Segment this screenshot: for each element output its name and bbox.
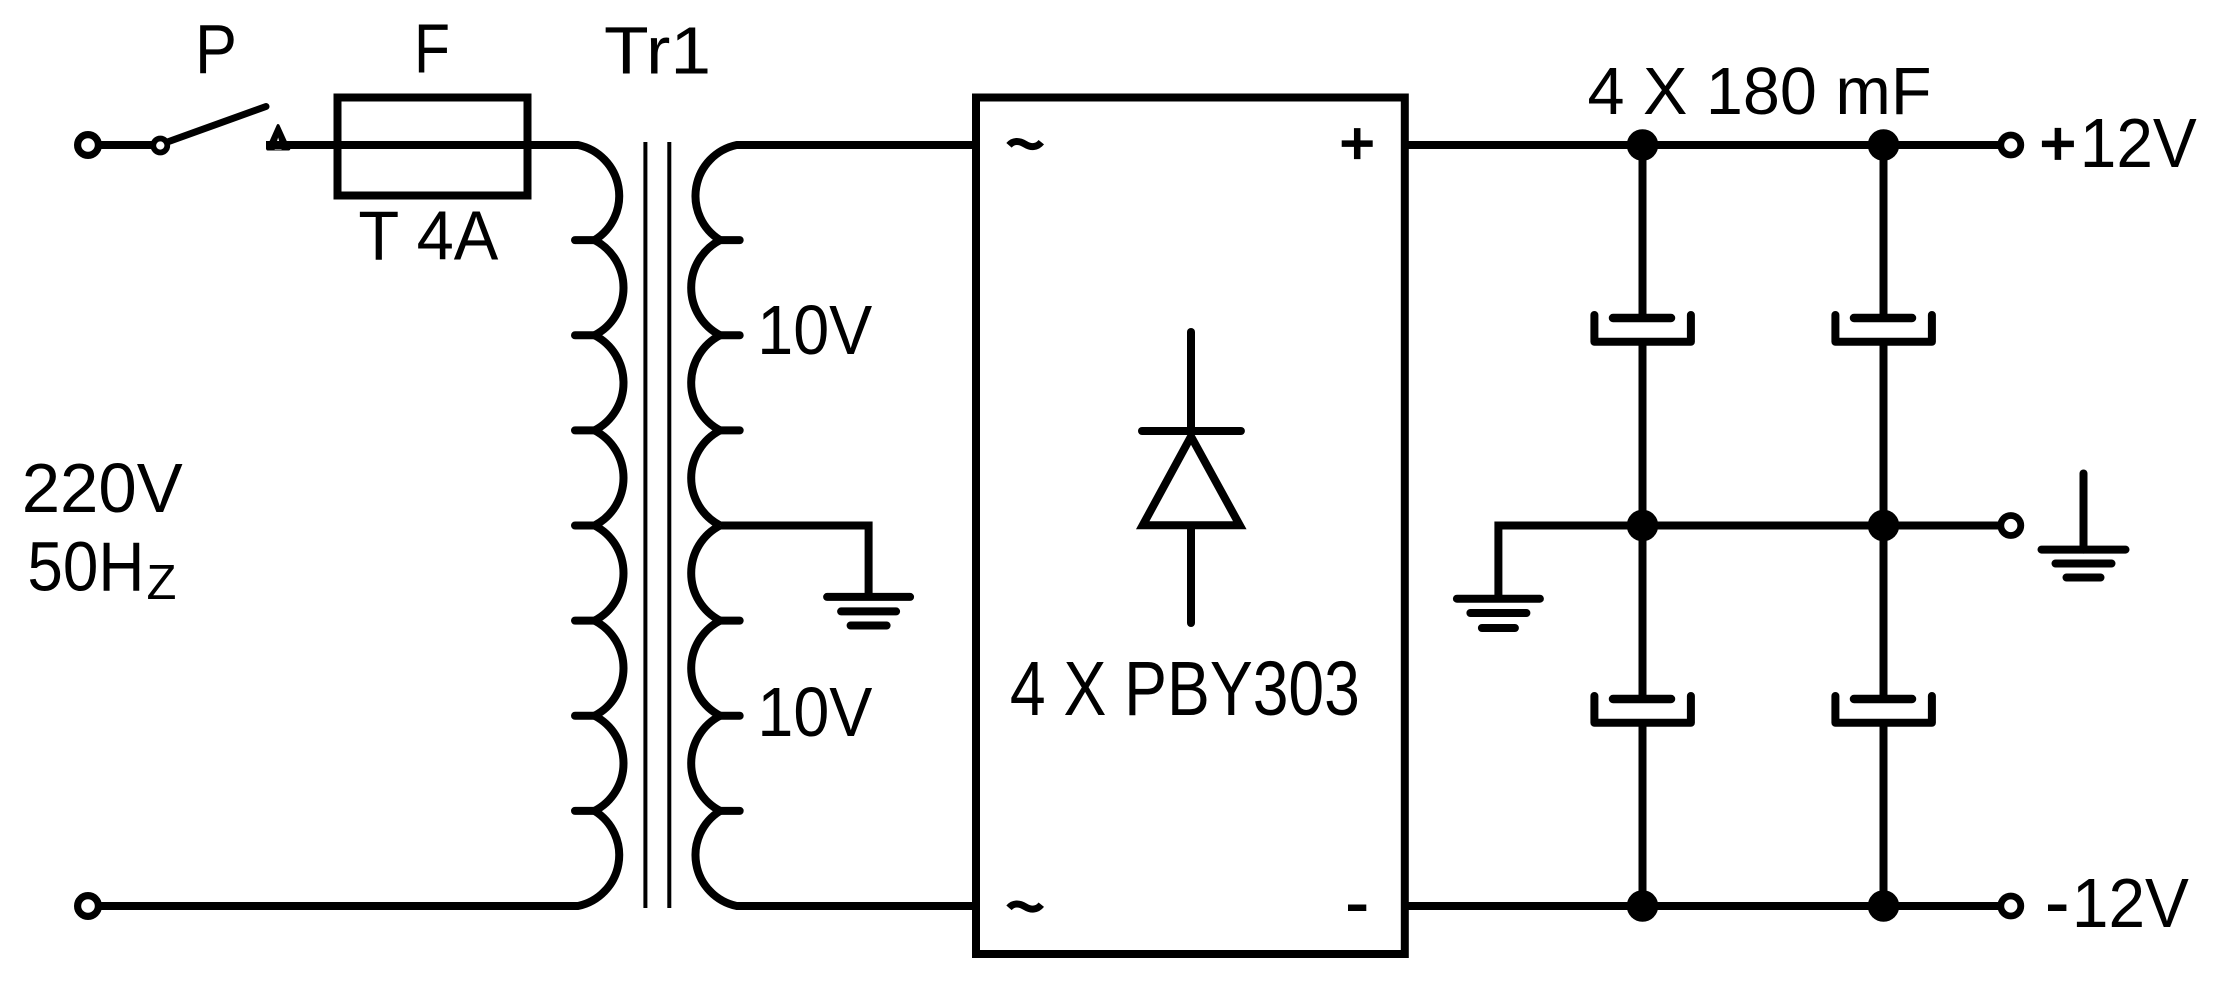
- terminal ground: [2001, 516, 2021, 536]
- junction dot bottom rail cap1: [1627, 890, 1659, 922]
- ground left of capacitors: [1457, 599, 1540, 628]
- ground symbol right: [2080, 474, 2088, 550]
- terminal -12V: [2001, 896, 2021, 916]
- svg-text:F: F: [414, 10, 450, 88]
- junction dot top rail cap2: [1868, 129, 1900, 161]
- terminal input top: [78, 135, 99, 156]
- diode cathode bar: [1142, 427, 1241, 435]
- terminal +12V: [2001, 135, 2021, 155]
- fuse F body: [338, 98, 528, 196]
- wire center tap to ground: [720, 526, 868, 594]
- svg-text:10V: 10V: [757, 291, 872, 369]
- wire input top (terminal to switch pivot): [88, 141, 160, 149]
- svg-text:4 X 180 mF: 4 X 180 mF: [1588, 54, 1932, 129]
- wire mid rail ground: [1498, 526, 1999, 599]
- capacitor C4: [1854, 695, 1912, 704]
- svg-text:12V: 12V: [2080, 104, 2197, 182]
- svg-text:P: P: [195, 10, 237, 88]
- wire switch arrow to fuse and through fuse to transformer: [266, 141, 578, 149]
- wire capacitor column 2 upper: [1880, 145, 1888, 526]
- wire top rail +12V: [1405, 141, 1999, 149]
- bridge minus symbol: [1348, 904, 1366, 911]
- junction dot top rail cap1: [1627, 129, 1659, 161]
- capacitor C2: [1854, 314, 1912, 323]
- bridge AC symbol bottom: [1009, 904, 1041, 909]
- transformer Tr1 primary winding: [88, 145, 624, 906]
- junction dot bottom rail cap2: [1868, 890, 1900, 922]
- switch P lever: [166, 107, 266, 143]
- label -12V: [2048, 904, 2066, 911]
- transformer Tr1 core lines: [645, 142, 669, 908]
- capacitor C1: [1613, 314, 1671, 323]
- transformer Tr1 secondary winding lower 10V: [691, 526, 976, 907]
- transformer Tr1 secondary winding upper 10V: [691, 145, 976, 526]
- junction dot mid rail cap1: [1627, 510, 1659, 542]
- bridge rectifier box 4 X PBY303: [976, 98, 1405, 955]
- wire capacitor column 1 upper: [1639, 145, 1647, 526]
- svg-text:Tr1: Tr1: [604, 14, 711, 89]
- svg-text:12V: 12V: [2072, 864, 2189, 942]
- diode triangle: [1143, 437, 1240, 526]
- wire capacitor column 2 lower: [1880, 526, 1888, 907]
- svg-text:10V: 10V: [757, 673, 872, 751]
- svg-text:T 4A: T 4A: [358, 197, 498, 275]
- svg-text:220V: 220V: [22, 449, 183, 527]
- bridge plus symbol: [1342, 128, 1373, 159]
- terminal input bottom: [78, 896, 99, 917]
- label +12V: [2042, 128, 2074, 160]
- bridge AC symbol top: [1009, 142, 1041, 147]
- svg-text:50H: 50H: [27, 528, 144, 606]
- switch P contact arrow: [268, 126, 289, 149]
- transformer Tr1 secondary cusp stubs: [720, 240, 740, 811]
- capacitor C3: [1613, 695, 1671, 704]
- transformer Tr1 primary cusp stubs: [575, 240, 595, 811]
- diode inside bridge cathode lead: [1187, 332, 1195, 428]
- svg-text:4 X PBY303: 4 X PBY303: [1010, 646, 1360, 732]
- wire bottom rail -12V: [1405, 902, 1999, 910]
- ground center tap: [827, 597, 910, 626]
- diode anode lead: [1187, 526, 1195, 623]
- switch P pivot circle: [153, 139, 167, 153]
- junction dot mid rail cap2: [1868, 510, 1900, 542]
- wire capacitor column 1 lower: [1639, 526, 1647, 907]
- svg-text:Z: Z: [147, 556, 177, 610]
